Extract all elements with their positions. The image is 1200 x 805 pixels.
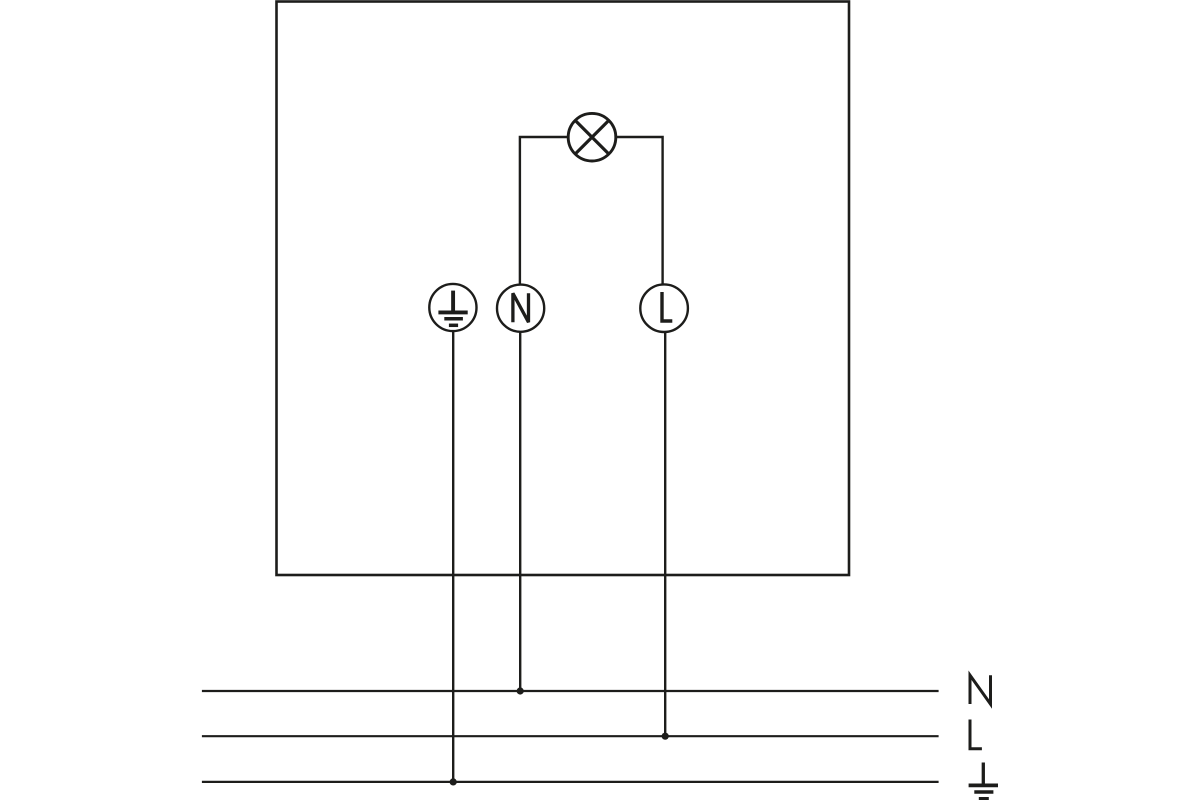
label N — [970, 675, 991, 704]
junction PE — [450, 778, 457, 785]
junction L — [662, 733, 669, 740]
device box — [277, 2, 850, 576]
net PE bus line — [202, 781, 939, 783]
label L — [970, 720, 982, 749]
wire terminal PE down to earth bus — [452, 331, 454, 782]
ground symbol — [969, 763, 998, 799]
lamp E1 — [568, 113, 616, 161]
net L bus line — [202, 735, 939, 737]
terminal L — [640, 284, 688, 332]
wire lamp to terminal N — [520, 137, 568, 285]
net N bus line — [202, 690, 939, 692]
terminal N — [497, 285, 544, 332]
wire terminal L down to L bus — [664, 332, 666, 736]
wire lamp to terminal L — [616, 137, 663, 285]
wire terminal N down to N bus — [519, 332, 521, 691]
junction N — [517, 687, 524, 694]
terminal PE (earth) — [429, 284, 476, 331]
